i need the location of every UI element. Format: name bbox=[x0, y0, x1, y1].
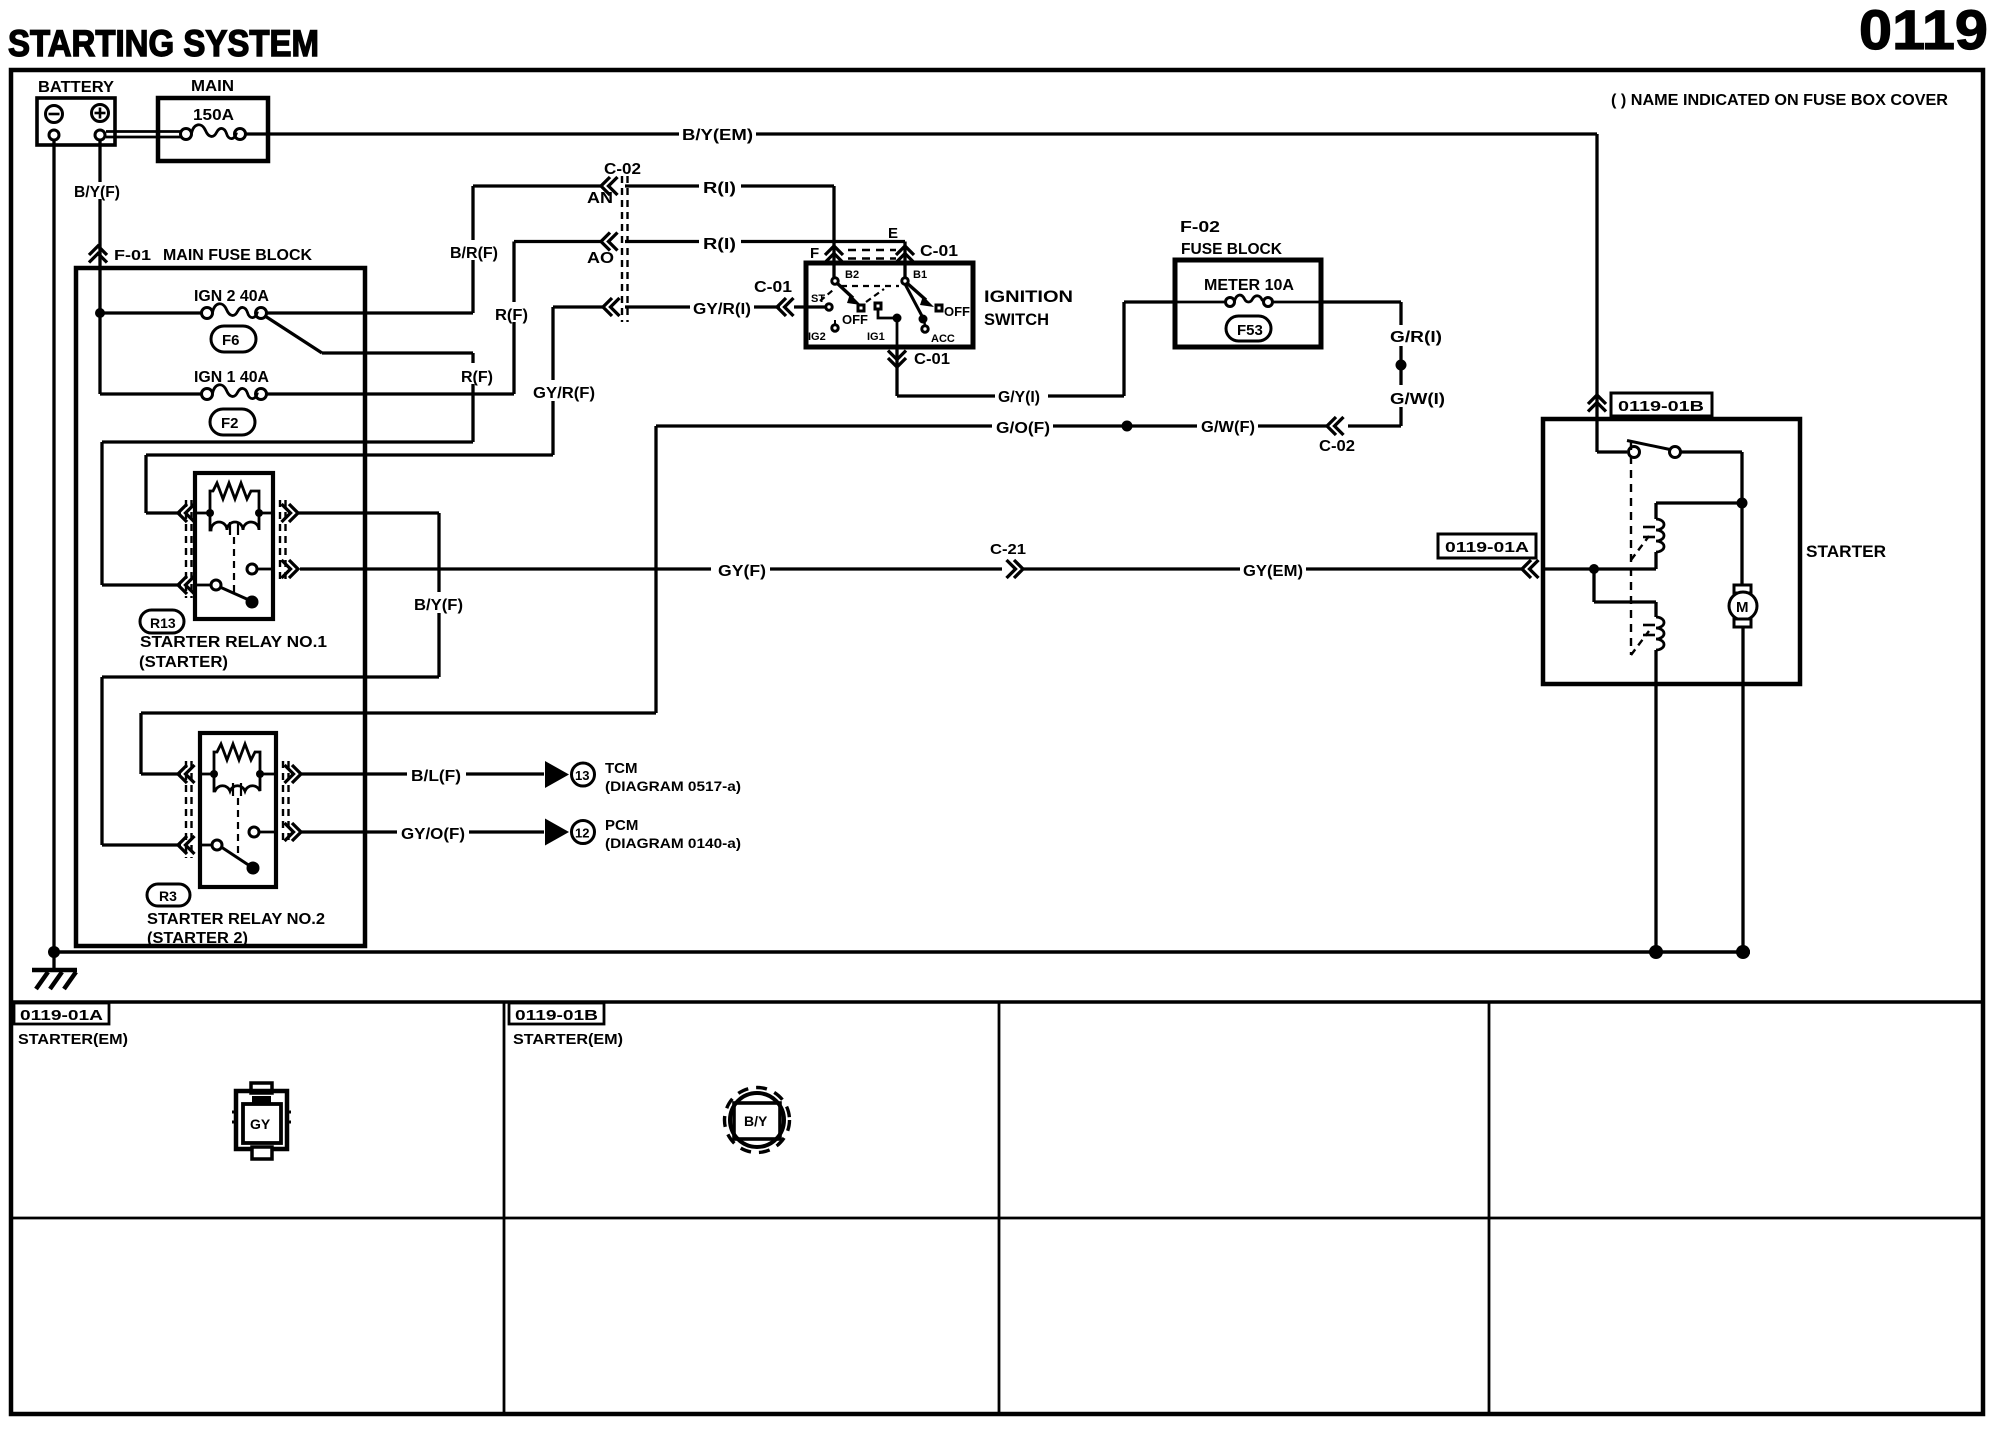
svg-text:G/R(I): G/R(I) bbox=[1390, 329, 1442, 346]
svg-text:G/Y(I): G/Y(I) bbox=[998, 389, 1040, 406]
svg-text:B/L(F): B/L(F) bbox=[411, 768, 461, 785]
relay R13 starter relay no.1 bbox=[195, 473, 273, 619]
svg-text:R3: R3 bbox=[159, 888, 177, 904]
svg-text:F6: F6 bbox=[222, 332, 240, 349]
svg-text:C-21: C-21 bbox=[990, 541, 1026, 558]
svg-text:E: E bbox=[888, 225, 898, 242]
connector F-01 chevron bbox=[89, 246, 151, 264]
svg-text:F-02: F-02 bbox=[1180, 219, 1220, 236]
svg-text:STARTER RELAY NO.1: STARTER RELAY NO.1 bbox=[140, 634, 327, 651]
label R3 bbox=[147, 884, 325, 947]
relay R3 starter relay no.2 bbox=[200, 733, 276, 887]
svg-text:STARTER: STARTER bbox=[1806, 542, 1886, 561]
mechanical dashed links bbox=[841, 285, 899, 287]
svg-text:(DIAGRAM 0140-a): (DIAGRAM 0140-a) bbox=[605, 835, 741, 851]
table column line 3 bbox=[1488, 1002, 1491, 1414]
wire B/Y(F) relay R13 coil to relay R3 contact bbox=[102, 513, 466, 845]
svg-text:150A: 150A bbox=[193, 107, 234, 124]
contact R3 bbox=[212, 840, 222, 850]
svg-text:ACC: ACC bbox=[931, 333, 955, 345]
svg-text:F: F bbox=[810, 245, 819, 262]
table row divider bbox=[11, 1217, 1983, 1220]
svg-text:R(I): R(I) bbox=[703, 236, 736, 253]
svg-text:13: 13 bbox=[575, 768, 589, 783]
node junction dot IGN2 feed bbox=[95, 308, 105, 318]
connector C-02 right chevron bbox=[1319, 417, 1355, 455]
wire B/Y(EM) from MAIN fuse to starter area bbox=[246, 127, 1598, 421]
svg-text:B1: B1 bbox=[913, 269, 927, 281]
svg-text:TCM: TCM bbox=[605, 760, 638, 777]
B2 blade arrow to OFF bbox=[838, 284, 853, 298]
magnetic switch contact bbox=[1595, 421, 1598, 452]
svg-text:0119-01A: 0119-01A bbox=[20, 1007, 103, 1024]
svg-text:R(I): R(I) bbox=[703, 180, 736, 197]
wire B/Y(F) battery feed down bbox=[73, 140, 122, 313]
terminal IG2 bbox=[832, 325, 838, 331]
connector tag 0119-01B with chevron bbox=[1588, 393, 1712, 416]
svg-text:0119-01A: 0119-01A bbox=[1445, 539, 1529, 556]
svg-text:C-01: C-01 bbox=[914, 351, 950, 368]
svg-text:(DIAGRAM 0517-a): (DIAGRAM 0517-a) bbox=[605, 778, 741, 794]
contact IG1 bbox=[875, 303, 881, 309]
connector chevrons relay R3 right bbox=[283, 761, 301, 845]
connector tag 0119-01A bbox=[1438, 534, 1536, 558]
svg-text:GY/R(F): GY/R(F) bbox=[533, 385, 595, 402]
svg-text:0119-01B: 0119-01B bbox=[1618, 398, 1704, 415]
svg-text:GY/O(F): GY/O(F) bbox=[401, 826, 465, 843]
svg-text:(STARTER): (STARTER) bbox=[139, 654, 228, 671]
svg-text:G/W(F): G/W(F) bbox=[1201, 419, 1255, 436]
svg-text:FUSE BLOCK: FUSE BLOCK bbox=[1181, 241, 1282, 258]
svg-text:GY: GY bbox=[250, 1116, 271, 1132]
svg-text:M: M bbox=[1736, 599, 1749, 616]
GY wire inside starter bbox=[1545, 567, 1656, 570]
B1 blade arrow to right OFF bbox=[908, 284, 926, 300]
svg-text:AO: AO bbox=[587, 250, 614, 267]
arrow to PCM 12 bbox=[545, 817, 741, 851]
wire R(F) IGN1 output to C-02 AO bbox=[267, 242, 604, 395]
svg-text:IGN 2 40A: IGN 2 40A bbox=[194, 288, 269, 305]
wire GY/R(I) to ignition ST bbox=[625, 279, 825, 318]
svg-text:B/Y(F): B/Y(F) bbox=[414, 597, 463, 614]
wire battery minus to ground bus bbox=[52, 140, 55, 952]
fuse IGN 2 40A (F6) bbox=[100, 288, 269, 352]
svg-text:R(F): R(F) bbox=[461, 369, 493, 386]
svg-text:PCM: PCM bbox=[605, 817, 638, 834]
fuse IGN 1 40A (F2) bbox=[100, 313, 269, 435]
table cell tag 0119-01A bbox=[14, 1003, 128, 1048]
ignition switch internals bbox=[808, 269, 970, 347]
wire GY/R(F) from C-02 to relay R13 coil bbox=[146, 307, 604, 513]
fuse MAIN 150A bbox=[158, 78, 268, 161]
svg-text:C-01: C-01 bbox=[754, 279, 792, 296]
switch U1 ignition switch box bbox=[806, 263, 1073, 347]
svg-text:STARTER(EM): STARTER(EM) bbox=[18, 1031, 128, 1048]
svg-text:OFF: OFF bbox=[842, 312, 868, 327]
wire R(I) upper to ignition B2 bbox=[625, 180, 834, 278]
fuse block F-02 METER 10A bbox=[1175, 219, 1321, 347]
motor M bbox=[1734, 585, 1751, 593]
svg-text:R(F): R(F) bbox=[495, 307, 528, 324]
wire starter motor return to ground bbox=[1741, 684, 1744, 952]
svg-text:STARTER RELAY NO.2: STARTER RELAY NO.2 bbox=[147, 911, 325, 928]
coil inside R3 bbox=[214, 774, 260, 791]
svg-text:C-02: C-02 bbox=[604, 161, 641, 178]
wire starter coil return to ground bbox=[1654, 684, 1657, 952]
svg-text:IGNITION: IGNITION bbox=[984, 287, 1073, 306]
wire B/R(F) IGN2 output to C-02 AN bbox=[267, 186, 604, 313]
connector C-02 dashed curtain and chevrons bbox=[587, 161, 641, 322]
mechanical dashed link bbox=[1630, 442, 1632, 655]
resistor inside R13 bbox=[210, 483, 259, 513]
svg-text:IG1: IG1 bbox=[867, 331, 885, 343]
battery BATTERY bbox=[37, 79, 115, 145]
ground bus bbox=[48, 945, 1750, 959]
wire R(F) IGN2 diagonal to relay R13 contact bbox=[102, 316, 495, 585]
svg-text:0119-01B: 0119-01B bbox=[515, 1007, 598, 1024]
arrow to TCM 13 bbox=[545, 760, 741, 794]
label R13 bbox=[139, 610, 327, 671]
connector chevrons relay R13 left bbox=[178, 500, 195, 598]
ground symbol bbox=[32, 952, 77, 989]
connector icon GY (0119-01A) bbox=[232, 1083, 291, 1159]
frame divider schematic/table bbox=[11, 1000, 1983, 1004]
svg-text:F53: F53 bbox=[1237, 322, 1263, 339]
svg-text:AN: AN bbox=[587, 190, 613, 207]
svg-text:F2: F2 bbox=[221, 415, 239, 432]
connector chevrons relay R3 left bbox=[178, 761, 195, 858]
connector C-01 bottom chevron bbox=[888, 347, 950, 396]
starter box bbox=[1543, 419, 1886, 684]
main fuse block box F-01 bbox=[76, 268, 365, 946]
svg-text:C-02: C-02 bbox=[1319, 438, 1355, 455]
wire G/R(I) G/W(I) meter fuse output bbox=[1321, 302, 1445, 426]
wire GY/O(F) relay R3 contact to PCM bbox=[300, 826, 544, 843]
B1 blade to ACC bbox=[905, 284, 922, 316]
svg-text:B/R(F): B/R(F) bbox=[450, 245, 498, 262]
connector icon B/Y (0119-01B) bbox=[725, 1088, 790, 1153]
terminal B1 bbox=[902, 278, 908, 284]
wire battery plus double line to MAIN fuse bbox=[106, 132, 182, 138]
terminal B2 bbox=[832, 278, 838, 284]
svg-text:STARTING SYSTEM: STARTING SYSTEM bbox=[8, 23, 319, 64]
coil L2 hold bbox=[1592, 569, 1595, 602]
svg-text:R13: R13 bbox=[150, 615, 176, 631]
table column line 1 bbox=[503, 1002, 506, 1414]
coil L1 pull-in bbox=[1656, 501, 1742, 504]
svg-text:G/W(I): G/W(I) bbox=[1390, 391, 1445, 408]
svg-text:OFF: OFF bbox=[944, 304, 970, 319]
svg-text:IGN 1 40A: IGN 1 40A bbox=[194, 369, 269, 386]
wire R(I) lower to ignition B1 bbox=[625, 236, 905, 278]
svg-text:B/Y: B/Y bbox=[744, 1113, 768, 1129]
svg-text:B/Y(F): B/Y(F) bbox=[74, 184, 120, 201]
coil inside R13 bbox=[210, 513, 259, 530]
svg-text:(STARTER 2): (STARTER 2) bbox=[147, 930, 248, 947]
svg-text:GY/R(I): GY/R(I) bbox=[693, 301, 751, 318]
svg-text:GY(EM): GY(EM) bbox=[1243, 563, 1303, 580]
svg-text:GY(F): GY(F) bbox=[718, 563, 766, 580]
svg-text:0119: 0119 bbox=[1859, 0, 1988, 61]
svg-text:STARTER(EM): STARTER(EM) bbox=[513, 1031, 623, 1048]
connector chevrons relay R13 right bbox=[280, 500, 298, 582]
resistor inside R3 bbox=[214, 744, 260, 774]
wire G/W(F) G/O(F) to relay R3 bbox=[141, 419, 1328, 774]
svg-text:G/O(F): G/O(F) bbox=[996, 420, 1050, 437]
svg-text:12: 12 bbox=[575, 826, 589, 841]
svg-text:F-01: F-01 bbox=[114, 247, 151, 264]
svg-text:B2: B2 bbox=[845, 269, 859, 281]
table column line 2 bbox=[998, 1002, 1001, 1414]
starter internals bbox=[1545, 421, 1757, 684]
svg-text:SWITCH: SWITCH bbox=[984, 310, 1049, 329]
table cell tag 0119-01B bbox=[509, 1003, 623, 1048]
wire GY(F) GY(EM) relay R13 to starter bbox=[300, 541, 1539, 580]
svg-text:MAIN: MAIN bbox=[191, 78, 234, 95]
connector C-01 top chevrons F and E bbox=[810, 225, 958, 263]
wire G/Y(I) ignition IG1 to meter fuse bbox=[897, 302, 1173, 406]
svg-text:B/Y(EM): B/Y(EM) bbox=[682, 127, 753, 144]
svg-text:IG2: IG2 bbox=[808, 331, 826, 343]
svg-text:( ) NAME INDICATED ON FUSE BOX: ( ) NAME INDICATED ON FUSE BOX COVER bbox=[1611, 92, 1948, 109]
svg-text:C-01: C-01 bbox=[920, 243, 958, 260]
wire B/L(F) relay R3 coil to TCM bbox=[300, 768, 544, 785]
contact R13 bbox=[211, 580, 221, 590]
svg-text:METER 10A: METER 10A bbox=[1204, 277, 1294, 294]
svg-text:MAIN FUSE BLOCK: MAIN FUSE BLOCK bbox=[163, 247, 312, 264]
svg-text:BATTERY: BATTERY bbox=[38, 79, 114, 96]
